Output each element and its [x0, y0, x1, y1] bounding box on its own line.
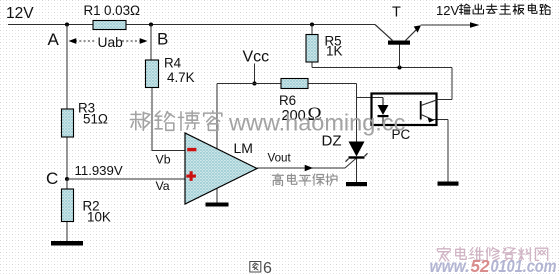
PC LED	[382, 98, 384, 106]
optocoupler PC box	[372, 94, 437, 126]
node base junction	[397, 65, 401, 69]
resistor R4	[146, 60, 159, 88]
svg-text:4.7K: 4.7K	[167, 70, 195, 85]
svg-text:Vout: Vout	[268, 151, 292, 164]
resistor R6	[281, 79, 308, 89]
svg-text:12V: 12V	[6, 5, 34, 22]
wire: R2 to ground	[66, 222, 68, 242]
wire: B down to R4	[150, 25, 152, 61]
watermark: 520101 site name	[437, 247, 450, 261]
wire: output emitter to arrow	[421, 24, 477, 26]
wire: 12V top rail	[8, 24, 375, 26]
ground under DZ	[346, 182, 367, 186]
svg-text:0.03Ω: 0.03Ω	[104, 3, 140, 18]
wire: Vcc rail to R6	[217, 83, 281, 85]
wire: C to op-amp + input	[67, 178, 185, 180]
arrow: 12V output	[470, 22, 480, 28]
wire: C to R2	[66, 179, 68, 189]
svg-text:R1: R1	[84, 3, 101, 18]
wire: R3 to C	[66, 137, 68, 179]
wire: R5 to transistor base rail	[312, 67, 452, 69]
svg-text:11.939V: 11.939V	[75, 163, 123, 178]
svg-text:A: A	[48, 30, 60, 49]
svg-text:Vcc: Vcc	[243, 49, 270, 66]
wire: op-amp V+ stem	[216, 84, 218, 151]
svg-text:Vb: Vb	[156, 153, 171, 167]
svg-text:6: 6	[263, 260, 272, 276]
svg-text:0101.com: 0101.com	[491, 256, 557, 276]
svg-text:LM: LM	[234, 140, 253, 156]
wire: DZ to ground	[356, 159, 358, 183]
note: high-level protection (chinese, gray)	[272, 174, 283, 186]
ground under R2	[51, 241, 83, 246]
ground under op-amp	[206, 203, 229, 207]
wire: R6 to DZ column	[308, 83, 357, 85]
svg-text:12V: 12V	[436, 3, 459, 18]
svg-text:www.: www.	[430, 256, 470, 276]
node B	[149, 22, 153, 26]
wire: R5 bottom stub	[311, 62, 313, 68]
wire: right vertical to PC collector	[451, 68, 453, 100]
svg-text:R4: R4	[164, 56, 182, 71]
svg-text:1K: 1K	[326, 44, 342, 59]
node C	[65, 177, 69, 181]
PC phototransistor	[420, 101, 422, 120]
wire: branch to PC LED anode	[357, 97, 384, 99]
resistor R2	[62, 189, 74, 222]
wire: op-amp output	[257, 167, 345, 169]
wire: base vertical	[399, 45, 401, 68]
svg-text:Va: Va	[156, 179, 170, 193]
node R5 top	[310, 22, 314, 26]
op-amp plus input mark	[186, 171, 196, 181]
svg-text:51Ω: 51Ω	[83, 112, 108, 127]
resistor R3	[62, 109, 74, 137]
wire: R4 down	[151, 88, 153, 151]
Uab dimension arrow	[75, 40, 142, 42]
wire: PC emitter out	[433, 119, 448, 121]
wire: output diagonal to DZ	[345, 158, 357, 169]
wire: Vcc stem	[254, 64, 256, 84]
svg-text:10K: 10K	[87, 209, 111, 224]
wire: to op-amp - input	[152, 150, 186, 152]
svg-text:Uab: Uab	[98, 35, 124, 50]
op-amp minus input mark	[187, 148, 196, 151]
op-amp U1 LM	[185, 133, 257, 204]
svg-text:C: C	[46, 169, 58, 188]
resistor R1	[93, 21, 126, 30]
svg-text:52: 52	[471, 256, 490, 276]
wire: op-amp ground stem	[216, 186, 218, 203]
watermark: naoming blog	[130, 111, 149, 130]
node Vcc	[252, 81, 256, 85]
resistor R5	[306, 35, 318, 63]
svg-text:www.haoming.cc: www.haoming.cc	[228, 110, 406, 136]
svg-text:T: T	[392, 5, 401, 21]
caption fig 6	[250, 262, 261, 273]
node A	[65, 22, 69, 26]
wire: R5 top stub	[311, 25, 313, 35]
transistor T	[388, 41, 410, 45]
arrow on output wire	[305, 165, 313, 172]
svg-text:B: B	[157, 30, 168, 49]
svg-text:R6: R6	[279, 93, 296, 108]
ground under PC	[438, 182, 459, 186]
zener diode DZ	[349, 142, 365, 157]
wire: A down to R3	[66, 25, 68, 110]
